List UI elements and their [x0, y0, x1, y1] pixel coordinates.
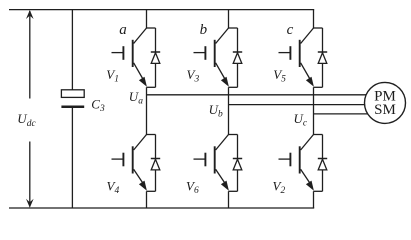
- transistor V1 (IGBT): [112, 28, 147, 87]
- wire: leg c midpoint vertical: [313, 87, 315, 134]
- svg-text:a: a: [119, 22, 127, 38]
- svg-text:b: b: [200, 22, 208, 38]
- diode of V3 (freewheeling, cathode up): [233, 52, 242, 63]
- wire: leg b emitter riser to bottom rail: [228, 191, 230, 208]
- transistor V4 (IGBT): [112, 135, 147, 191]
- wire: phase b output line to motor: [229, 104, 373, 106]
- transistor V2 (IGBT): [279, 135, 314, 191]
- wire: antiparallel diode lead of V3: [237, 28, 239, 87]
- diode of V5 (freewheeling, cathode up): [318, 52, 327, 63]
- wire: V6 top connector to diode: [229, 134, 238, 136]
- svg-text:c: c: [287, 22, 294, 38]
- wire: leg b midpoint vertical: [228, 87, 230, 134]
- wire: V4 top connector to diode: [147, 134, 156, 136]
- Udc measurement arrow (double-headed, gap for label): [26, 10, 34, 208]
- capacitor C3 (electrolytic: box plate + bar plate): [61, 90, 84, 107]
- wire: top DC bus rail: [9, 9, 314, 11]
- wire: phase c output line to motor: [314, 113, 373, 115]
- transistor V5 (IGBT): [279, 28, 314, 87]
- wire: V3 top connector to diode: [229, 27, 238, 29]
- wire: antiparallel diode lead of V4: [155, 135, 157, 192]
- wire: leg c collector riser from top rail: [313, 10, 315, 28]
- diode of V1 (freewheeling, cathode up): [151, 52, 160, 63]
- wire: leg b collector riser from top rail: [228, 10, 230, 28]
- wire: leg a midpoint vertical: [146, 87, 148, 134]
- diode of V6 (freewheeling, cathode up): [233, 159, 242, 170]
- wire: V1 top connector to diode: [147, 27, 156, 29]
- wire: V2 emitter/diode bottom connector: [314, 190, 323, 192]
- wire: leg a collector riser from top rail: [146, 10, 148, 28]
- wire: antiparallel diode lead of V5: [322, 28, 324, 87]
- transistor V6 (IGBT): [194, 135, 229, 191]
- wire: antiparallel diode lead of V1: [155, 28, 157, 87]
- motor PM SM (circle): [365, 82, 406, 123]
- wire: capacitor branch, top stem: [71, 10, 73, 90]
- wire: V1 emitter/diode bottom connector: [147, 86, 156, 88]
- wire: bottom DC bus rail: [9, 207, 314, 209]
- wire: V5 emitter/diode bottom connector: [314, 86, 323, 88]
- diode of V2 (freewheeling, cathode up): [318, 159, 327, 170]
- wire: V2 top connector to diode: [314, 134, 323, 136]
- diode of V4 (freewheeling, cathode up): [151, 159, 160, 170]
- wire: phase a output line to motor: [147, 94, 373, 96]
- wire: V4 emitter/diode bottom connector: [147, 190, 156, 192]
- wire: antiparallel diode lead of V6: [237, 135, 239, 192]
- wire: leg a emitter riser to bottom rail: [146, 191, 148, 208]
- wire: capacitor branch, bottom stem: [71, 108, 73, 208]
- wire: V5 top connector to diode: [314, 27, 323, 29]
- wire: leg c emitter riser to bottom rail: [313, 191, 315, 208]
- wire: V3 emitter/diode bottom connector: [229, 86, 238, 88]
- wire: antiparallel diode lead of V2: [322, 135, 324, 192]
- transistor V3 (IGBT): [194, 28, 229, 87]
- svg-text:SM: SM: [374, 102, 396, 118]
- wire: V6 emitter/diode bottom connector: [229, 190, 238, 192]
